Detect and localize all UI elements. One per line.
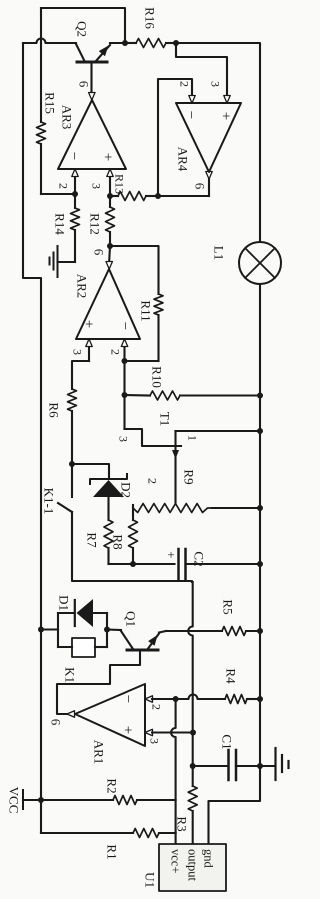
svg-text:−: − (120, 695, 136, 703)
svg-text:2: 2 (109, 349, 123, 355)
svg-text:+: + (218, 112, 234, 120)
svg-text:output: output (186, 849, 200, 881)
svg-text:R9: R9 (181, 469, 196, 484)
svg-text:R4: R4 (223, 668, 238, 684)
svg-text:+: + (167, 547, 174, 562)
svg-text:+: + (120, 726, 136, 734)
svg-text:VCC: VCC (6, 787, 21, 814)
svg-text:C2: C2 (191, 551, 206, 566)
svg-text:K1-1: K1-1 (41, 488, 56, 515)
svg-text:gnd: gnd (202, 849, 216, 869)
svg-text:R10: R10 (149, 366, 164, 388)
svg-text:C1: C1 (219, 734, 234, 749)
svg-text:AR4: AR4 (175, 147, 190, 172)
svg-text:R2: R2 (104, 778, 119, 793)
svg-text:6: 6 (192, 183, 207, 190)
svg-text:3: 3 (90, 183, 104, 189)
svg-text:6: 6 (76, 81, 91, 88)
svg-text:1: 1 (186, 435, 200, 441)
svg-text:T1: T1 (157, 412, 172, 426)
svg-text:+: + (81, 320, 97, 328)
svg-text:D2: D2 (118, 482, 133, 498)
svg-text:Q1: Q1 (123, 611, 138, 627)
svg-text:3: 3 (71, 349, 85, 355)
svg-text:AR2: AR2 (74, 274, 89, 299)
svg-text:R14: R14 (52, 213, 67, 235)
svg-text:R8: R8 (110, 534, 125, 549)
svg-text:R16: R16 (142, 7, 157, 29)
svg-text:R11: R11 (138, 300, 153, 321)
svg-text:6: 6 (48, 719, 63, 726)
svg-text:R15: R15 (42, 92, 57, 114)
svg-text:R13: R13 (113, 174, 127, 194)
svg-text:3: 3 (209, 81, 223, 87)
svg-text:Q2: Q2 (74, 21, 89, 37)
svg-text:AR3: AR3 (59, 105, 74, 130)
svg-text:R6: R6 (46, 402, 61, 418)
svg-text:R3: R3 (174, 816, 189, 831)
svg-text:+: + (100, 153, 116, 161)
svg-text:3: 3 (148, 738, 162, 744)
svg-text:U1: U1 (142, 872, 157, 888)
svg-text:L1: L1 (211, 246, 226, 260)
svg-text:2: 2 (57, 183, 71, 189)
svg-text:3: 3 (117, 436, 131, 442)
svg-text:AR1: AR1 (91, 740, 106, 765)
svg-text:−: − (66, 152, 82, 160)
svg-text:R5: R5 (220, 599, 235, 614)
svg-text:−: − (117, 322, 133, 330)
svg-text:R1: R1 (104, 844, 119, 859)
svg-text:R7: R7 (84, 532, 99, 548)
svg-text:D1: D1 (56, 595, 71, 611)
svg-text:2: 2 (150, 704, 164, 710)
svg-text:2: 2 (146, 478, 160, 484)
svg-text:vcc+: vcc+ (169, 849, 183, 873)
svg-text:−: − (183, 111, 199, 119)
svg-text:R12: R12 (87, 213, 102, 235)
svg-text:6: 6 (91, 249, 106, 256)
svg-text:2: 2 (178, 81, 192, 87)
svg-text:K1: K1 (62, 667, 77, 683)
